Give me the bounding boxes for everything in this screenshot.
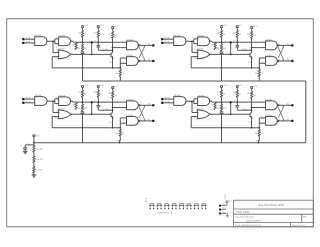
svg-text:P1.08: P1.08	[225, 195, 227, 199]
svg-text:GND: GND	[117, 141, 122, 143]
svg-text:REV: REV	[303, 216, 308, 218]
svg-text:R9 100k: R9 100k	[36, 149, 43, 151]
svg-text:One-Shot Delay (6bit): One-Shot Delay (6bit)	[258, 203, 284, 207]
svg-text:JUMPER BLOCK: JUMPER BLOCK	[158, 213, 173, 215]
svg-text:Document Number:: Document Number:	[236, 216, 255, 219]
svg-text:R11 10k: R11 10k	[36, 170, 43, 172]
svg-text:TITLE: 6464A: TITLE: 6464A	[236, 211, 251, 214]
svg-text:GND: GND	[256, 141, 261, 143]
svg-text:COM: COM	[222, 208, 227, 210]
svg-text:VCC: VCC	[36, 135, 41, 137]
svg-text:1u: 1u	[28, 143, 30, 145]
svg-text:JP1-8: JP1-8	[146, 198, 148, 203]
svg-text:Date: 4/30/2013 08:32:17p: Date: 4/30/2013 08:32:17p	[236, 224, 263, 227]
svg-text:R10 47k: R10 47k	[36, 159, 43, 161]
svg-text:C7: C7	[20, 146, 22, 148]
svg-text:A-SCH-4016B-1: A-SCH-4016B-1	[246, 219, 263, 222]
svg-text:Sheet: 1 of 1: Sheet: 1 of 1	[292, 224, 305, 227]
